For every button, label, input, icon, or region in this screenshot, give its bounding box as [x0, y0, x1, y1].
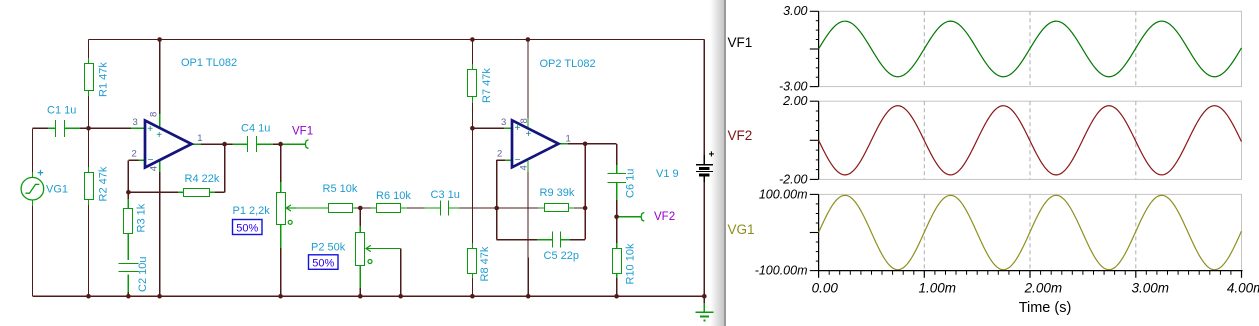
svg-text:VG1: VG1 — [46, 183, 68, 195]
resistor R2 — [85, 173, 94, 200]
resistor R5 — [329, 204, 353, 213]
wire node R5R6 down to P2 — [359, 208, 361, 232]
capacitor C3 — [440, 200, 442, 215]
svg-text:R6 10k: R6 10k — [376, 190, 411, 202]
svg-text:3.00m: 3.00m — [1132, 281, 1170, 296]
svg-text:VG1: VG1 — [728, 222, 755, 237]
wire R4 right up to output node — [210, 144, 225, 192]
battery V1 — [696, 165, 713, 175]
svg-text:50%: 50% — [312, 258, 334, 270]
wire VF2 probe stub — [617, 216, 642, 218]
wire P1 bottom to rail — [280, 224, 282, 297]
svg-text:R10 10k: R10 10k — [625, 243, 637, 284]
wire OP2 output — [559, 143, 585, 145]
svg-text:3: 3 — [501, 117, 506, 128]
resistor R6 — [377, 204, 401, 213]
svg-text:R2 47k: R2 47k — [98, 166, 110, 201]
wire R10 to rail — [616, 273, 618, 296]
svg-text:R8 47k: R8 47k — [479, 246, 491, 281]
wire node VF1 down to P1 — [280, 144, 282, 192]
svg-text:+: + — [147, 124, 153, 135]
wire R3 lead — [127, 192, 129, 208]
P2 percent box — [309, 255, 339, 270]
node pin8 OP2 — [526, 37, 531, 42]
svg-text:50%: 50% — [236, 223, 258, 235]
resistor R8 — [468, 249, 477, 274]
junction R8-rail — [470, 294, 475, 299]
capacitor C6 — [607, 173, 626, 175]
wire C4 to node VF1 — [256, 143, 280, 145]
wire pin2 node down to C5 left — [497, 208, 553, 240]
svg-text:C6 1u: C6 1u — [625, 169, 637, 198]
wire output column up to OP2 out — [584, 144, 586, 208]
VF2 probe — [641, 212, 644, 221]
svg-text:-3.00: -3.00 — [779, 80, 808, 94]
svg-text:+: + — [37, 168, 43, 180]
svg-text:1: 1 — [566, 133, 571, 144]
potentiometer P1 — [277, 193, 297, 225]
junction R2-rail — [86, 294, 91, 299]
wire P2 wiper to rail — [366, 249, 401, 297]
generator VG1 — [21, 177, 44, 200]
junction P1-rail — [278, 294, 283, 299]
svg-text:C3 1u: C3 1u — [431, 189, 460, 201]
node B (pin2/R3/R4) — [126, 190, 131, 195]
schematic window edge shading — [710, 0, 726, 326]
x-axis labels — [812, 281, 1259, 296]
node OP2 pin2 net — [494, 206, 499, 211]
wire P2 bottom to rail — [359, 265, 361, 296]
svg-text:1.00m: 1.00m — [919, 281, 957, 296]
wire C2 to rail — [127, 275, 129, 297]
wire node C down to R8 (crosses chain, no join) — [471, 128, 473, 248]
potentiometer P2 — [356, 233, 373, 266]
node R5-R6-P2 — [358, 206, 363, 211]
svg-text:100.00m: 100.00m — [759, 187, 808, 201]
svg-text:C4 1u: C4 1u — [241, 123, 270, 135]
svg-text:1: 1 — [197, 133, 202, 144]
svg-text:+: + — [156, 130, 162, 141]
svg-text:C2 10u: C2 10u — [137, 257, 149, 292]
resistor R9 — [545, 204, 569, 212]
wire OP1 output to C4 — [192, 143, 249, 145]
junction P2-rail — [358, 294, 363, 299]
node pin8 OP1 — [157, 37, 162, 42]
svg-text:4.00m: 4.00m — [1227, 281, 1259, 296]
VF1 probe — [305, 140, 308, 149]
svg-text:2: 2 — [497, 149, 502, 160]
wire R9 right to output column — [568, 207, 585, 209]
ground — [695, 296, 713, 320]
svg-text:VF1: VF1 — [728, 35, 753, 50]
svg-text:3.00: 3.00 — [783, 4, 807, 18]
svg-text:0.00: 0.00 — [812, 281, 839, 296]
wire node C to OP2 pin3 — [472, 127, 512, 129]
wire output to C6 — [585, 144, 617, 174]
wire R6 to C3 — [400, 207, 440, 209]
wire C5 right to output column — [560, 208, 585, 240]
curve VG1 olive sine — [819, 195, 1242, 269]
junction battery-rail — [702, 294, 707, 299]
P1 percent box — [233, 220, 263, 235]
svg-text:VF2: VF2 — [728, 128, 753, 143]
wire battery column — [703, 40, 705, 165]
resistor R7 — [468, 70, 477, 97]
wire OP1 pin2 feedback left — [128, 160, 145, 192]
svg-text:R9 39k: R9 39k — [540, 187, 575, 199]
plot VF2 y-axis labels — [779, 94, 808, 186]
x-axis (time) — [819, 271, 1243, 278]
wire node VF2 to R10 — [616, 217, 618, 249]
node R7 top — [470, 37, 475, 42]
wire C6 to node VF2 — [616, 182, 618, 216]
junction C2-rail — [126, 294, 131, 299]
svg-text:2.00: 2.00 — [782, 94, 807, 108]
svg-text:C1 1u: C1 1u — [47, 105, 76, 117]
svg-text:3: 3 — [133, 117, 138, 128]
svg-text:OP1 TL082: OP1 TL082 — [181, 57, 237, 69]
node OP2 out — [583, 142, 588, 147]
svg-text:C5 22p: C5 22p — [544, 250, 579, 262]
svg-text:R7 47k: R7 47k — [481, 68, 493, 103]
node A (C1/R1/R2/pin3) — [86, 126, 91, 131]
wire C1 right to node A — [64, 127, 88, 129]
junction P2 wiper-rail — [398, 294, 403, 299]
node C (R7/R8/pin3 OP2) — [470, 126, 475, 131]
wire R2 column — [88, 128, 90, 296]
resistor R3 — [124, 209, 133, 234]
plot VF2 frame — [810, 101, 1242, 179]
wire R8 to rail — [471, 273, 473, 296]
wire top supply rail — [89, 39, 705, 41]
node OP1 out — [222, 142, 227, 147]
wire node B to R4 — [128, 191, 183, 193]
node VF2 — [614, 215, 619, 220]
wire VG1 top to C1 — [32, 128, 56, 177]
curve VF2 dark red sine — [819, 106, 1242, 175]
svg-text:−: − — [148, 155, 154, 166]
node R9 right — [583, 206, 588, 211]
wire OP2 pin2 loop — [497, 160, 512, 208]
plot VG1 frame — [810, 194, 1242, 270]
wire P1 wiper to R5 — [286, 207, 328, 209]
svg-text:R1 47k: R1 47k — [98, 62, 110, 97]
svg-text:Time (s): Time (s) — [1019, 300, 1072, 316]
svg-text:+: + — [526, 129, 532, 140]
wire R7 to node C (OP2 pin3) — [471, 97, 473, 128]
wire R1 column — [88, 40, 90, 129]
wire VF1 probe stub — [281, 143, 306, 145]
capacitor C5 — [552, 232, 554, 248]
resistor R1 — [85, 64, 94, 91]
svg-text:+: + — [709, 150, 715, 161]
resistor R4 — [184, 189, 210, 197]
curve VF1 green sine — [819, 21, 1242, 77]
wire VG1 bottom to rail — [31, 200, 33, 296]
wire R5 to R6 node — [352, 207, 376, 209]
plot VF1 frame — [810, 11, 1242, 86]
wire OP2 pin4 to rail — [527, 161, 529, 296]
svg-text:R4 22k: R4 22k — [185, 173, 220, 185]
svg-text:VF1: VF1 — [292, 126, 313, 138]
svg-text:R5 10k: R5 10k — [323, 183, 358, 195]
svg-text:2: 2 — [132, 149, 137, 160]
svg-text:8: 8 — [149, 112, 160, 117]
svg-text:P2 50k: P2 50k — [311, 242, 346, 254]
wire R7 column top — [471, 40, 473, 70]
junction pin4 OP2-rail — [526, 294, 531, 299]
wire bottom ground rail — [32, 295, 704, 297]
plot VG1 y-axis labels — [755, 187, 808, 277]
wire pin2 node to R9 left — [497, 207, 545, 209]
plot VF1 y-axis labels — [779, 4, 808, 93]
svg-text:VF2: VF2 — [654, 211, 675, 223]
svg-text:-100.00m: -100.00m — [755, 264, 808, 278]
node VF1 — [278, 142, 283, 147]
svg-text:4: 4 — [149, 166, 160, 171]
capacitor C4 — [247, 136, 249, 152]
svg-text:V1 9: V1 9 — [656, 168, 679, 180]
wire R3 to C2 — [127, 234, 129, 260]
wire battery bottom to rail — [703, 176, 705, 296]
svg-text:2.00m: 2.00m — [1024, 281, 1063, 296]
junction R10-rail — [614, 294, 619, 299]
capacitor C1 — [55, 120, 57, 137]
svg-text:P1 2,2k: P1 2,2k — [233, 205, 271, 217]
resistor R10 — [613, 249, 622, 274]
svg-text:R3 1k: R3 1k — [136, 203, 148, 232]
svg-text:+: + — [515, 123, 521, 134]
wire OP1 pin8 supply — [159, 40, 161, 128]
op-amp OP1 — [145, 121, 192, 168]
svg-text:OP2 TL082: OP2 TL082 — [540, 58, 596, 70]
wire OP1 pin4 to rail — [159, 161, 161, 296]
wire OP2 pin8 supply — [527, 40, 529, 128]
svg-text:8: 8 — [519, 118, 530, 123]
op-amp OP2 — [512, 120, 559, 167]
wire node A to OP1 pin3 — [89, 127, 146, 129]
svg-text:−: − — [515, 155, 521, 166]
capacitor C2 — [118, 263, 138, 265]
junction pin4 OP1-rail — [157, 294, 162, 299]
wire C3 to OP2 pin2 node — [449, 207, 497, 209]
svg-text:-2.00: -2.00 — [779, 172, 808, 186]
